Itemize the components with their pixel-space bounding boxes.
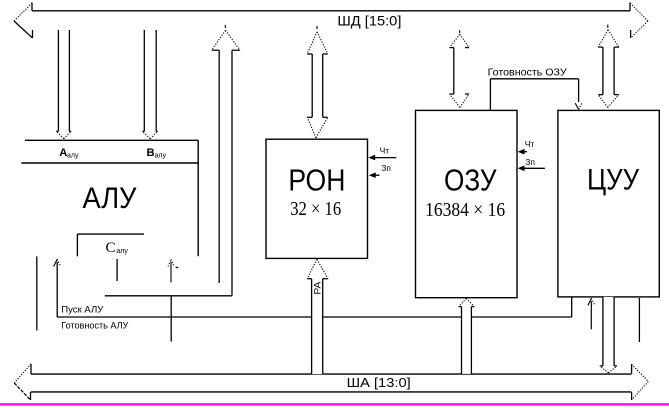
bottom bus left arrowhead: [14, 364, 31, 400]
svg-text:C: C: [106, 240, 116, 256]
svg-text:Готовность ОЗУ: Готовность ОЗУ: [488, 67, 568, 78]
svg-text:ЦУУ: ЦУУ: [587, 163, 640, 196]
svg-text:алу: алу: [155, 153, 167, 160]
svg-text:Готовность АЛУ: Готовность АЛУ: [61, 321, 128, 331]
wire stub below result line: [170, 296, 172, 342]
hollow arrow Aалу input from bus: [56, 30, 71, 139]
dangling line below ЦУУ: [638, 298, 640, 342]
svg-text:алу: алу: [67, 153, 79, 160]
block ЦУУ: [558, 110, 659, 297]
data bus ШД [15:0] body line: [32, 10, 630, 12]
block РОН: [266, 139, 368, 258]
wire result line to bus arrow: [105, 295, 232, 297]
hollow double arrow bus-ЦУУ: [598, 25, 619, 108]
svg-text:16384 × 16: 16384 × 16: [425, 200, 505, 221]
wire Пуск АЛУ from ЦУУ to АЛУ: [54, 259, 572, 317]
wire Готовность ОЗУ: [490, 79, 582, 111]
hollow arrow ЦУУ address to bus: [600, 297, 617, 373]
top bus left arrowhead: [14, 3, 33, 39]
svg-text:ОЗУ: ОЗУ: [444, 162, 497, 197]
svg-text:ША [13:0]: ША [13:0]: [347, 375, 411, 390]
wire Готовность АЛУ stub from АЛУ: [36, 256, 38, 330]
small arrow toward АЛУ bottom: [168, 259, 178, 282]
wire Cалу output: [116, 259, 118, 281]
hollow arrow РОН to address bus: [307, 259, 328, 374]
svg-text:ШД [15:0]: ШД [15:0]: [337, 14, 401, 29]
address bus ША [13:0] body: [31, 374, 631, 392]
block АЛУ: [21, 140, 198, 256]
magenta separator line: [0, 403, 669, 405]
svg-text:Зп: Зп: [525, 157, 535, 167]
svg-text:Чт: Чт: [380, 145, 390, 155]
svg-text:B: B: [147, 147, 155, 159]
wire Зп into РОН: [369, 172, 380, 178]
hollow arrow Bалу input from bus: [142, 30, 157, 139]
bottom bus right arrowhead: [632, 364, 649, 400]
block ОЗУ: [416, 110, 518, 297]
hollow double arrow bus-ОЗУ (right shaft missing): [450, 30, 470, 107]
top bus right arrowhead: [630, 3, 648, 39]
svg-text:Зп: Зп: [381, 163, 391, 173]
register Cалу box: [77, 234, 144, 256]
svg-text:алу: алу: [116, 248, 128, 255]
svg-text:Пуск АЛУ: Пуск АЛУ: [61, 304, 103, 314]
hollow arrow ОЗУ address from bus: [459, 298, 475, 374]
wire Готовность АЛУ arrow into ЦУУ: [588, 298, 595, 329]
hollow double arrow bus-РОН: [307, 26, 328, 138]
wire Чт into РОН: [368, 155, 396, 161]
wire Чт into ОЗУ: [518, 149, 527, 155]
svg-text:РОН: РОН: [288, 162, 345, 197]
svg-text:Чт: Чт: [525, 139, 535, 149]
svg-text:РА: РА: [312, 282, 322, 295]
hollow arrow АЛУ result to bus: [212, 25, 240, 296]
svg-text:32 × 16: 32 × 16: [290, 199, 341, 220]
wire Зп into ОЗУ: [518, 166, 545, 172]
svg-text:АЛУ: АЛУ: [83, 182, 137, 215]
